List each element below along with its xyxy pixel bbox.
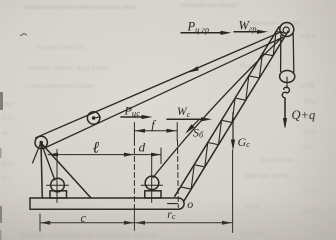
center winch drum <box>141 156 163 203</box>
boom lattice <box>181 32 287 190</box>
force arrow P_цс <box>121 115 153 119</box>
rope force arrow S_б <box>185 119 199 134</box>
mast post <box>41 143 42 198</box>
hook block pulley <box>280 71 295 89</box>
boom weight arrow G_с <box>231 113 235 151</box>
force arrow P_цгр <box>181 31 232 35</box>
upper mast pulley <box>87 112 100 124</box>
paper grain noise <box>0 0 1 1</box>
rope direction arrowhead <box>188 66 199 72</box>
dimension c <box>40 214 134 231</box>
base frame bar <box>30 198 184 209</box>
boom left chord <box>175 27 279 196</box>
machine axis line <box>133 123 135 231</box>
boom CG vertical line <box>232 150 234 233</box>
page-edge dark marks <box>0 34 27 240</box>
right shading band <box>0 0 1 1</box>
dimension d <box>134 148 161 164</box>
mast anchor stub <box>33 144 41 164</box>
left winch drum <box>47 150 69 203</box>
hoist rope from center winch to boom head <box>153 37 282 177</box>
boom pivot axis line <box>177 123 178 208</box>
hook fall left <box>280 36 282 72</box>
dimension l <box>48 153 134 157</box>
tackle rope lower fall <box>44 38 283 149</box>
dimension f <box>134 129 177 133</box>
load force arrow Q+q <box>283 98 287 129</box>
main ink <box>30 19 315 233</box>
boom right chord <box>184 31 288 201</box>
lower mast pulley <box>35 136 47 148</box>
tackle rope upper fall (mast block to boom head) <box>36 32 282 138</box>
hook fall right <box>292 34 295 73</box>
boom head pulley <box>280 23 294 37</box>
rope from mast pulley to left winch <box>42 144 55 180</box>
force arrow W_гр <box>234 30 268 34</box>
dimension r_с <box>135 221 233 225</box>
bottom shading band <box>0 0 1 1</box>
hook <box>282 87 289 98</box>
mast diagonal strut <box>42 144 92 199</box>
force arrow W_с <box>167 117 212 121</box>
